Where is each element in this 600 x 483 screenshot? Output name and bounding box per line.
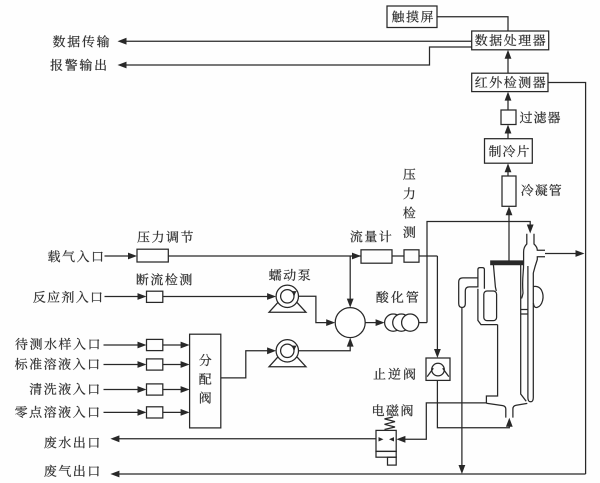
- label acidification tube 酸化管: [376, 291, 418, 303]
- wire check valve down right up into vessel bottom with arrow: [437, 380, 512, 427]
- wire cleaning into distribution valve: [163, 386, 190, 393]
- wire sample arrow into valve box: [104, 342, 147, 349]
- wire touch screen to data processor: [437, 17, 508, 31]
- vessel lid: [491, 261, 524, 265]
- wire waste water line with left arrow: [110, 435, 376, 442]
- box filter 过滤器 with label: [501, 110, 560, 125]
- wire pump1 outlet to mixer with arrow: [299, 296, 336, 326]
- wire carrier line to down branch: [419, 255, 437, 257]
- wire carrier line regulator to flowmeter: [168, 253, 361, 260]
- box U3 infrared detector 红外检测器: [472, 73, 548, 91]
- wire arrow IR detector to data processor: [505, 50, 512, 73]
- box condenser tube 冷凝管 with label: [502, 176, 561, 206]
- wire standard into distribution valve: [163, 361, 190, 368]
- wire reagent inlet arrow into detect box: [105, 293, 147, 300]
- vessel left sidearm trap: [459, 268, 498, 325]
- box flow meter: [361, 250, 392, 263]
- vessel inner dip tube: [520, 266, 533, 402]
- box inlet valve for standard: [147, 359, 163, 370]
- wire vessel drain to solenoid with left arrow: [396, 403, 486, 443]
- label pressure regulation 压力调节: [138, 231, 194, 243]
- wire vessel sidearm drain down with arrow: [459, 308, 466, 475]
- wire IR detector outlet to right vent line: [548, 83, 586, 475]
- mixer circle: [335, 308, 365, 338]
- label waste water outlet 废水出口: [44, 436, 99, 448]
- box inlet valve for sample: [147, 339, 163, 350]
- wire standard arrow into valve box: [104, 361, 147, 368]
- wire zero into distribution valve: [163, 409, 190, 416]
- wire data-out with left arrow: [118, 38, 472, 45]
- label alarm output 报警输出: [50, 59, 106, 71]
- label data transmission 数据传输: [53, 35, 109, 47]
- box inlet valve for cleaning: [147, 384, 163, 395]
- box U2 data processor 数据处理器: [472, 31, 549, 50]
- wire cleaning arrow into valve box: [104, 386, 147, 393]
- wire waste gas bottom line with left arrow: [110, 471, 585, 478]
- box flow-cut detector: [147, 291, 163, 302]
- wire vessel gas outlet to vent line with arrow: [545, 250, 585, 257]
- wire arrow condenser to cooler: [505, 163, 512, 176]
- label pressure detection 压力检测 vertical: [403, 168, 415, 238]
- wire sample into distribution valve: [163, 342, 190, 349]
- wire branch down into mixer with arrow: [347, 256, 354, 308]
- box distribution valve 分配阀: [190, 334, 221, 428]
- label peristaltic pump 蠕动泵: [269, 269, 310, 281]
- wire alarm-out with left arrow: [118, 47, 472, 68]
- pump P1 peristaltic pump upper: [269, 285, 306, 312]
- wire mixer outlet arrow into coil: [365, 319, 384, 326]
- wire riser up over to tube top with arrow: [427, 222, 534, 323]
- box U1 touch screen 触摸屏: [387, 6, 437, 28]
- label zero solution inlet 零点溶液入口: [15, 406, 99, 418]
- vessel gas teardrop loop: [533, 286, 543, 307]
- wire distribution valve to pump2 with arrow: [221, 347, 276, 378]
- label cleaning liquid inlet 清洗液入口: [30, 383, 99, 395]
- label waste gas outlet 废气出口: [44, 465, 99, 477]
- wire zero arrow into valve box: [104, 409, 147, 416]
- label reagent inlet 反应剂入口: [33, 291, 101, 303]
- coil acidification tube circles: [385, 314, 419, 331]
- vessel top bulb tube: [523, 234, 545, 273]
- label flow-cut detection 断流检测: [137, 273, 192, 285]
- wire arrow cooler to filter: [505, 125, 512, 139]
- label solenoid valve 电磁阀: [373, 404, 413, 416]
- wire coil outlet to riser: [419, 322, 427, 324]
- label sample water inlet 待测水样入口: [15, 338, 99, 350]
- wire carrier inlet arrow into regulator: [105, 253, 138, 260]
- vessel outer walls: [486, 265, 527, 418]
- wire down branch to check valve with arrow: [434, 256, 441, 358]
- valve V1 check valve symbol: [426, 358, 450, 380]
- label carrier gas inlet 载气入口: [48, 250, 103, 262]
- box cooler 制冷片: [485, 139, 533, 164]
- box pressure regulator: [137, 249, 168, 262]
- box pressure sensor: [404, 250, 419, 262]
- label standard solution inlet 标准溶液入口: [15, 358, 99, 370]
- wire arrow filter to IR detector: [505, 92, 512, 110]
- label flow meter 流量计: [350, 230, 391, 242]
- wire arrow vessel lid to condenser: [506, 206, 513, 261]
- box inlet valve for zero: [147, 407, 163, 418]
- label check valve 止逆阀: [374, 368, 416, 380]
- wire flowmeter to pressure sensor: [392, 255, 404, 257]
- wire pump2 outlet up into mixer with arrow: [299, 338, 354, 351]
- pump P2 peristaltic pump lower: [269, 340, 306, 367]
- valve V2 solenoid valve symbol: [376, 417, 396, 465]
- wire detect box to pump1 with arrow: [163, 293, 276, 300]
